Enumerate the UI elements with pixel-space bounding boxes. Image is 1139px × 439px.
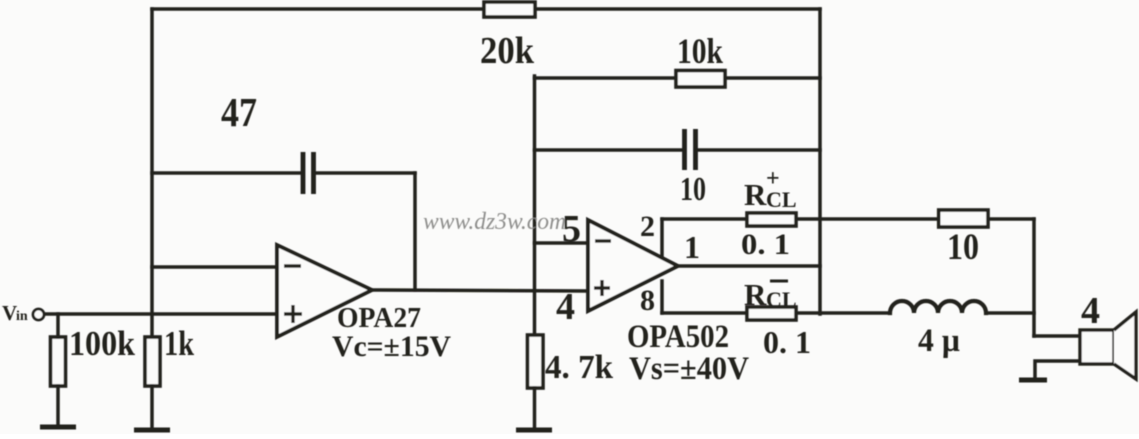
wire 10uF branch right xyxy=(698,148,820,152)
svg-text:4. 7k: 4. 7k xyxy=(545,349,613,386)
svg-text:Vs=±40V: Vs=±40V xyxy=(629,351,749,387)
wire 100k top stub xyxy=(56,314,60,337)
svg-text:10: 10 xyxy=(947,227,979,268)
op-amp OPA502 xyxy=(588,220,678,311)
svg-text:1k: 1k xyxy=(164,324,194,363)
wire RCL- branch xyxy=(662,311,820,315)
wire OPA502 feedback node vertical xyxy=(533,76,537,336)
wire OPA502 inverting input xyxy=(535,241,589,245)
label RCL- xyxy=(744,277,797,312)
wire 10k feedback branch xyxy=(535,76,821,80)
svg-text:R: R xyxy=(744,177,767,212)
wire 47pF branch vertical to OPA27 output xyxy=(413,173,417,290)
wire 47pF branch right xyxy=(316,171,415,175)
wire speaker bottom terminal xyxy=(1035,361,1080,379)
ground (100k) xyxy=(40,425,76,430)
wire right vertical rail xyxy=(818,9,822,314)
wire 47pF branch left xyxy=(152,171,300,175)
resistor 1k xyxy=(145,337,160,386)
resistor 10 (output) xyxy=(939,210,988,227)
svg-text:100k: 100k xyxy=(69,324,135,363)
wire Vin to OPA27 non-inverting input xyxy=(45,312,277,316)
svg-text:8: 8 xyxy=(640,284,655,317)
svg-text:in: in xyxy=(16,309,28,324)
op-amp OPA502 minus symbol xyxy=(595,239,611,242)
ground (1k) xyxy=(134,428,170,433)
wire to speaker top terminal xyxy=(1034,334,1080,338)
svg-text:0. 1: 0. 1 xyxy=(763,324,811,360)
svg-text:R: R xyxy=(744,277,767,312)
wire pin2 stub xyxy=(660,219,664,257)
op-amp OPA27 plus symbol xyxy=(284,305,302,323)
svg-text:47: 47 xyxy=(221,89,257,135)
wire OPA502 output pin1 xyxy=(678,264,820,268)
op-amp OPA27 xyxy=(277,245,372,337)
wire right output drop xyxy=(1032,219,1036,336)
resistor 20k (feedback) xyxy=(484,2,535,17)
label Vin xyxy=(2,301,28,325)
wire 100k bottom stub xyxy=(56,386,60,425)
svg-text:1: 1 xyxy=(684,229,700,265)
svg-text:V: V xyxy=(2,301,17,325)
svg-text:www.dz3w.com: www.dz3w.com xyxy=(423,209,566,235)
wire pin8 stub xyxy=(660,281,664,313)
op-amp OPA502 plus symbol xyxy=(594,280,610,296)
wire inductor branch right xyxy=(986,311,1034,315)
label RCL+ xyxy=(744,166,797,212)
svg-text:4: 4 xyxy=(1081,290,1100,332)
svg-text:CL: CL xyxy=(766,287,797,312)
wire OPA27 inverting input xyxy=(152,265,277,269)
svg-text:20k: 20k xyxy=(480,30,535,72)
resistor 4.7k xyxy=(528,335,544,388)
op-amp OPA27 minus symbol xyxy=(284,264,301,267)
wire OPA27 output to OPA502 non-inverting input xyxy=(372,290,588,291)
wire 10uF branch left xyxy=(535,148,683,152)
wire left vertical rail xyxy=(150,9,154,338)
resistor RCL+ 0.1 xyxy=(747,213,796,226)
svg-text:2: 2 xyxy=(640,210,655,243)
inductor 4u xyxy=(890,301,986,313)
svg-text:10k: 10k xyxy=(677,31,723,71)
svg-text:10: 10 xyxy=(680,171,706,208)
speaker 4 ohm xyxy=(1080,330,1114,364)
resistor 100k xyxy=(51,337,66,386)
resistor 10k (feedback) xyxy=(676,71,725,88)
wire top feedback rail xyxy=(152,7,820,11)
svg-text:4 µ: 4 µ xyxy=(918,323,960,359)
node Vin terminal xyxy=(33,309,44,320)
wire RCL+ branch to output network xyxy=(662,217,1034,221)
wire 4.7k bottom stub xyxy=(533,388,537,428)
capacitor 47 xyxy=(303,152,314,194)
wire inductor branch left xyxy=(820,311,890,315)
svg-text:Vc=±15V: Vc=±15V xyxy=(332,330,451,363)
capacitor 10 xyxy=(685,129,696,170)
svg-text:0. 1: 0. 1 xyxy=(741,228,790,261)
ground (4.7k) xyxy=(516,428,552,433)
resistor RCL- 0.1 xyxy=(747,307,796,320)
ground (speaker) xyxy=(1019,378,1047,383)
svg-text:OPA502: OPA502 xyxy=(627,319,729,355)
svg-text:4: 4 xyxy=(556,286,575,328)
wire 1k bottom stub xyxy=(150,386,154,428)
svg-text:+: + xyxy=(766,166,780,192)
